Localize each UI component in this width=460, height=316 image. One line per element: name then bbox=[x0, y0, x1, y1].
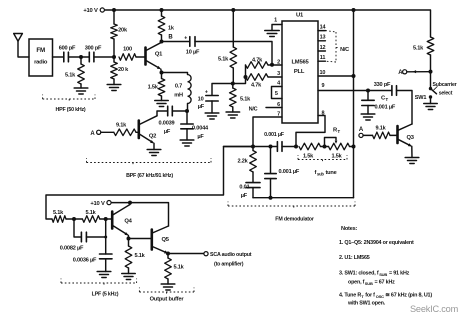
svg-text:2. U1: LM565: 2. U1: LM565 bbox=[339, 255, 370, 261]
svg-text:20 k: 20 k bbox=[118, 67, 129, 73]
svg-text:SUB: SUB bbox=[365, 281, 373, 286]
ground (CT) bbox=[361, 113, 375, 115]
wire 10uF to pin2 line bbox=[195, 42, 272, 65]
svg-text:tune: tune bbox=[326, 170, 337, 176]
FM demodulator bracket bbox=[227, 202, 229, 207]
+10V terminal (top) bbox=[100, 8, 104, 12]
svg-text:5.1k: 5.1k bbox=[85, 210, 96, 216]
inductor 0.7 mH bbox=[188, 75, 192, 104]
node Vcc chain bbox=[352, 145, 356, 149]
transistor Q2 bbox=[138, 121, 141, 139]
svg-text:Output buffer: Output buffer bbox=[150, 297, 185, 303]
node Q4 emitter bbox=[127, 237, 131, 241]
svg-text:SCA audio output: SCA audio output bbox=[210, 252, 252, 258]
resistor 1k (Q1 collector load) bbox=[161, 10, 163, 16]
resistor 4.7k (pin 2) bbox=[246, 62, 269, 69]
node BPF tank bbox=[185, 109, 189, 113]
svg-text:N/C: N/C bbox=[340, 47, 349, 53]
svg-text:1.5k: 1.5k bbox=[331, 154, 342, 160]
switch SW1 subcarrier select bbox=[430, 72, 432, 89]
svg-text:A: A bbox=[90, 131, 95, 137]
svg-text:20k: 20k bbox=[118, 28, 128, 34]
resistor 20k (lower divider) bbox=[113, 57, 115, 62]
svg-text:0.0036 µF: 0.0036 µF bbox=[73, 258, 97, 264]
svg-text:11: 11 bbox=[320, 55, 326, 61]
node Q4 base bbox=[104, 217, 108, 221]
svg-text:+: + bbox=[184, 35, 187, 41]
svg-text:13: 13 bbox=[320, 35, 326, 41]
svg-text:+10 V: +10 V bbox=[90, 201, 105, 207]
svg-text:0.0044: 0.0044 bbox=[192, 126, 209, 132]
ground (0.0044) bbox=[180, 139, 194, 141]
svg-text:Q5: Q5 bbox=[162, 237, 170, 243]
svg-text:HPF (50 kHz): HPF (50 kHz) bbox=[56, 107, 86, 113]
ground (pin 1) bbox=[265, 30, 279, 32]
ground (Q3 emitter) bbox=[405, 157, 419, 159]
resistor 5.1k (LPF 1) bbox=[52, 216, 66, 223]
antenna bbox=[14, 34, 23, 42]
transistor Q3 bbox=[396, 126, 399, 143]
svg-text:N/C: N/C bbox=[249, 106, 258, 112]
resistor 5.1k (bias upper) bbox=[232, 10, 234, 47]
resistor 5.1k (subcarrier pullup) bbox=[427, 37, 434, 55]
ground (Q4 emitter) bbox=[122, 273, 135, 275]
resistor 9.1k (Q3 base) bbox=[373, 132, 391, 139]
svg-text:with SW1 open.: with SW1 open. bbox=[347, 301, 386, 307]
svg-text:BPF (67 kHz/91 kHz): BPF (67 kHz/91 kHz) bbox=[126, 173, 173, 179]
svg-text:= 67 kHz: = 67 kHz bbox=[375, 280, 396, 286]
node bias bbox=[231, 82, 235, 86]
svg-text:PLL: PLL bbox=[294, 69, 305, 75]
ground (Q1 emitter) bbox=[155, 100, 168, 102]
wire Q2 collector to 0.0039uF bbox=[157, 111, 168, 116]
resistor 5.1k (Q4 emitter) bbox=[128, 239, 130, 247]
resistor 9.1k (Q2 base) bbox=[114, 129, 136, 136]
svg-text:Q3: Q3 bbox=[407, 135, 415, 141]
resistor 5.1k (Q5 emitter) bbox=[167, 254, 169, 259]
ground (divider) bbox=[107, 84, 121, 86]
node B bbox=[160, 40, 164, 44]
capacitor 0.0039 uF bbox=[167, 106, 169, 116]
svg-text:for f: for f bbox=[365, 293, 375, 299]
svg-text:T: T bbox=[386, 97, 389, 102]
svg-text:Q1: Q1 bbox=[155, 52, 163, 58]
capacitor 600 pF bbox=[63, 52, 65, 62]
svg-text:sub: sub bbox=[317, 172, 324, 177]
svg-text:4.7k: 4.7k bbox=[251, 83, 262, 89]
bottom filter wire bbox=[253, 197, 354, 199]
svg-text:(to amplifier): (to amplifier) bbox=[214, 262, 244, 268]
IC U1 LM565 PLL bbox=[282, 21, 318, 123]
Output buffer bracket bbox=[138, 288, 140, 293]
svg-text:4. Tune R: 4. Tune R bbox=[339, 293, 361, 299]
svg-text:µF: µF bbox=[241, 193, 248, 199]
svg-text:14: 14 bbox=[320, 24, 327, 30]
svg-text:5.1k: 5.1k bbox=[53, 210, 64, 216]
svg-text:A: A bbox=[359, 127, 364, 133]
svg-text:600 pF: 600 pF bbox=[59, 45, 76, 51]
svg-text:0.001 µF: 0.001 µF bbox=[375, 105, 396, 111]
capacitor 0.01 uF bbox=[252, 172, 254, 182]
svg-text:SeekIC.com: SeekIC.com bbox=[410, 304, 459, 314]
svg-text:3: 3 bbox=[277, 71, 280, 77]
node divider bbox=[112, 55, 116, 59]
svg-text:9: 9 bbox=[322, 83, 325, 89]
svg-text:5: 5 bbox=[275, 91, 278, 97]
transistor Q1 bbox=[144, 48, 147, 65]
svg-text:12: 12 bbox=[320, 45, 326, 51]
svg-text:µF: µF bbox=[197, 134, 204, 140]
svg-text:T: T bbox=[338, 129, 341, 134]
+10V supply rail bbox=[105, 10, 431, 37]
resistor 5.1k (bias lower) bbox=[230, 88, 237, 107]
svg-text:Notes:: Notes: bbox=[341, 226, 358, 232]
wire bias to 10uF decouple bbox=[212, 84, 233, 96]
HPF (50 kHz) bracket bbox=[42, 95, 44, 100]
resistor 1.5k (Q1 emitter) bbox=[161, 73, 163, 79]
node RT tap bbox=[323, 145, 327, 149]
ground (10uF) bbox=[205, 112, 219, 114]
node A / SW1 bbox=[429, 70, 433, 74]
svg-text:T: T bbox=[361, 294, 364, 299]
svg-text:9.1k: 9.1k bbox=[116, 123, 127, 129]
ground (Q5 emitter) bbox=[161, 283, 175, 285]
svg-text:10: 10 bbox=[198, 96, 204, 102]
resistor 100 (Q1 base) bbox=[119, 54, 136, 61]
svg-text:3. SW1: closed, f: 3. SW1: closed, f bbox=[339, 271, 379, 277]
ground (bias) bbox=[226, 111, 240, 113]
svg-text:LPF (5 kHz): LPF (5 kHz) bbox=[92, 292, 119, 298]
fsub tune bracket bbox=[297, 155, 299, 160]
svg-text:+: + bbox=[205, 90, 208, 96]
transistor Q5 bbox=[129, 238, 152, 240]
svg-text:B: B bbox=[168, 35, 173, 41]
potentiometer RT 1.5k bbox=[329, 143, 350, 150]
svg-text:FM: FM bbox=[36, 47, 45, 54]
svg-text:10 µF: 10 µF bbox=[186, 50, 200, 56]
capacitor 0.0044 uF bbox=[186, 111, 188, 124]
svg-text:9.1k: 9.1k bbox=[375, 126, 386, 132]
SCA audio output terminal bbox=[168, 253, 204, 255]
audio wire to LPF bbox=[46, 147, 253, 220]
resistor 5.1k (LPF 2) bbox=[82, 216, 99, 223]
ground (0.0036) bbox=[97, 271, 111, 273]
capacitor 300 pF bbox=[88, 52, 90, 62]
wire B to 10uF bbox=[162, 41, 190, 43]
FM radio box bbox=[29, 39, 53, 76]
svg-text:10: 10 bbox=[320, 70, 326, 76]
svg-text:5.1k: 5.1k bbox=[135, 253, 146, 259]
svg-text:300 pF: 300 pF bbox=[85, 45, 102, 51]
node LPF mid bbox=[72, 217, 76, 221]
svg-text:0.0039: 0.0039 bbox=[159, 121, 175, 127]
svg-text:0.001 µF: 0.001 µF bbox=[264, 132, 285, 138]
svg-text:U1: U1 bbox=[296, 13, 304, 19]
svg-text:SW1: SW1 bbox=[415, 95, 427, 101]
ground (HPF 5.1k) bbox=[74, 87, 88, 89]
svg-text:= 91 kHz: = 91 kHz bbox=[389, 271, 410, 277]
svg-text:5.1k: 5.1k bbox=[413, 46, 424, 52]
node Q1 emitter bbox=[160, 71, 164, 75]
capacitor 0.001 uF (shunt) bbox=[270, 147, 272, 174]
svg-text:0.01: 0.01 bbox=[239, 185, 249, 191]
svg-text:5.1k: 5.1k bbox=[218, 57, 229, 63]
svg-text:open, f: open, f bbox=[348, 280, 365, 286]
resistor 20k (upper divider) bbox=[113, 10, 115, 24]
node CT bbox=[366, 89, 370, 93]
wire FM radio to C 600pF bbox=[53, 56, 64, 58]
node Q5 emitter / output bbox=[166, 252, 170, 256]
svg-text:0.001 µF: 0.001 µF bbox=[279, 169, 300, 175]
svg-text:1.5k: 1.5k bbox=[148, 85, 159, 91]
capacitor 0.001 uF (series) bbox=[276, 142, 278, 152]
svg-text:µF: µF bbox=[198, 104, 205, 110]
pin 7 wire bbox=[253, 117, 282, 147]
svg-text:100: 100 bbox=[123, 47, 132, 53]
svg-text:5.1k: 5.1k bbox=[65, 73, 76, 79]
capacitor 330 pF bbox=[391, 86, 393, 96]
Vcc vertical line bbox=[353, 10, 355, 198]
resistor 1.5k (left) bbox=[299, 143, 321, 150]
wire 600pF to node bbox=[68, 56, 89, 58]
svg-text:µF: µF bbox=[164, 129, 171, 135]
wire 300pF to divider node bbox=[94, 56, 114, 58]
svg-text:2: 2 bbox=[277, 60, 280, 66]
svg-text:mH: mH bbox=[174, 93, 183, 99]
svg-text:LM565: LM565 bbox=[291, 60, 309, 66]
node pin8 junction bbox=[294, 145, 298, 149]
svg-text:4: 4 bbox=[277, 80, 281, 86]
svg-text:0.0082 µF: 0.0082 µF bbox=[60, 246, 84, 252]
svg-text:Q4: Q4 bbox=[124, 219, 132, 225]
svg-text:radio: radio bbox=[34, 60, 48, 66]
svg-text:5.1k: 5.1k bbox=[174, 265, 185, 271]
svg-text:2.2k: 2.2k bbox=[237, 159, 248, 165]
FM demod node line bbox=[224, 146, 278, 148]
wire 100 to Q1 base bbox=[136, 56, 145, 58]
svg-text:4.7k: 4.7k bbox=[252, 57, 263, 63]
svg-text:≅ 67 kHz (pin 8, U1): ≅ 67 kHz (pin 8, U1) bbox=[385, 293, 432, 299]
capacitor 0.0036 uF bbox=[105, 219, 107, 254]
ground (Q2 emitter) bbox=[147, 149, 161, 151]
svg-text:1k: 1k bbox=[168, 26, 175, 32]
resistor 5.1k (HPF shunt) bbox=[80, 57, 82, 64]
svg-text:SUB: SUB bbox=[379, 272, 387, 277]
svg-text:OSC: OSC bbox=[376, 294, 384, 299]
svg-text:5.1k: 5.1k bbox=[240, 97, 251, 103]
svg-text:1. Q1–Q5: 2N3904 or equivalent: 1. Q1–Q5: 2N3904 or equivalent bbox=[339, 240, 414, 246]
BPF bracket bbox=[86, 158, 88, 163]
wire bias to 4.7k pair bbox=[233, 65, 246, 84]
svg-text:1.5k: 1.5k bbox=[303, 154, 314, 160]
transistor Q4 bbox=[106, 218, 112, 220]
capacitor 0.0082 uF (feedback) bbox=[74, 219, 81, 237]
capacitor CT 0.001 uF bbox=[367, 91, 369, 101]
wire emitter to inductor bbox=[162, 73, 188, 75]
resistor 2.2k bbox=[252, 147, 254, 151]
ground (SW1) bbox=[424, 103, 437, 105]
svg-text:Q2: Q2 bbox=[149, 134, 156, 140]
LPF bracket bbox=[60, 279, 62, 284]
resistor 4.7k (pin 3) bbox=[246, 74, 269, 81]
node HPF junction bbox=[79, 55, 83, 59]
svg-text:1: 1 bbox=[274, 18, 277, 24]
node Q4 collector bbox=[128, 201, 132, 205]
svg-text:select: select bbox=[439, 91, 453, 97]
svg-text:+10 V: +10 V bbox=[83, 8, 98, 14]
svg-text:330 pF: 330 pF bbox=[374, 82, 391, 88]
svg-text:0.7: 0.7 bbox=[175, 84, 182, 90]
node 4.7k tap bbox=[244, 75, 248, 79]
svg-text:FM demodulator: FM demodulator bbox=[275, 217, 314, 223]
